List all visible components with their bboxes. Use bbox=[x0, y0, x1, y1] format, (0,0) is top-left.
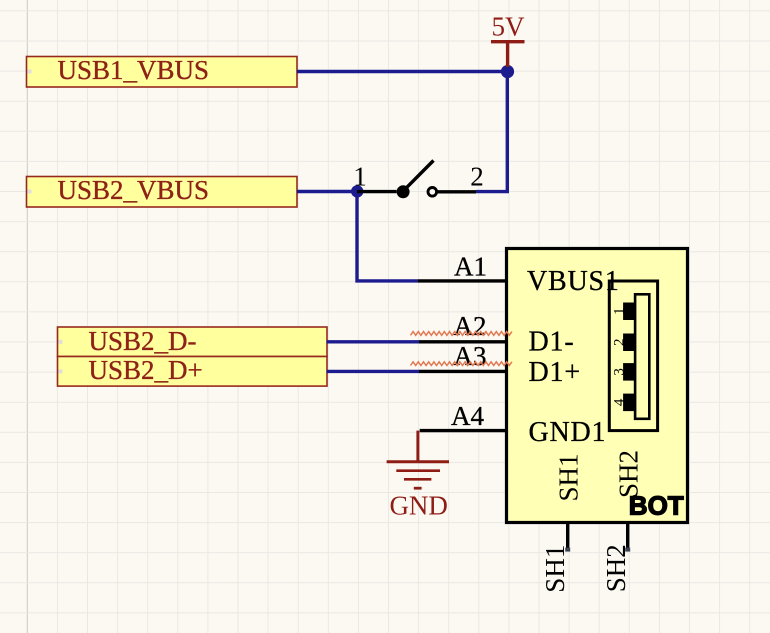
svg-text:2: 2 bbox=[470, 161, 484, 191]
svg-text:1: 1 bbox=[612, 308, 628, 316]
svg-text:SH1: SH1 bbox=[540, 545, 570, 593]
svg-text:USB2_VBUS: USB2_VBUS bbox=[58, 175, 210, 205]
svg-text:SH2: SH2 bbox=[601, 544, 631, 592]
svg-text:A1: A1 bbox=[454, 251, 487, 281]
svg-text:SH1: SH1 bbox=[554, 453, 584, 501]
svg-text:D1-: D1- bbox=[529, 327, 575, 358]
svg-text:GND1: GND1 bbox=[529, 417, 607, 448]
svg-text:2: 2 bbox=[612, 339, 628, 347]
svg-text:A4: A4 bbox=[451, 401, 484, 431]
svg-text:3: 3 bbox=[612, 368, 628, 376]
svg-text:4: 4 bbox=[612, 398, 628, 406]
svg-text:A3: A3 bbox=[454, 341, 487, 371]
svg-text:USB2_D-: USB2_D- bbox=[89, 326, 197, 356]
svg-text:D1+: D1+ bbox=[529, 357, 581, 388]
svg-text:5V: 5V bbox=[492, 11, 526, 41]
svg-text:USB2_D+: USB2_D+ bbox=[89, 355, 203, 385]
svg-text:A2: A2 bbox=[454, 311, 487, 341]
svg-text:GND: GND bbox=[389, 490, 448, 520]
svg-text:VBUS1: VBUS1 bbox=[527, 266, 620, 297]
svg-text:USB1_VBUS: USB1_VBUS bbox=[58, 55, 210, 85]
svg-text:1: 1 bbox=[353, 161, 367, 191]
svg-text:BOT: BOT bbox=[629, 490, 684, 520]
